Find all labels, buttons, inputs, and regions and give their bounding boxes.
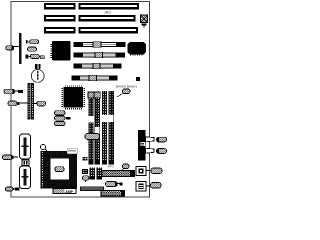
component B2 (socketed part) <box>136 182 146 192</box>
SIMM socket 3 <box>102 91 107 165</box>
pill row 2 <box>55 116 71 120</box>
pill row 1 (left of QFP) <box>55 111 66 115</box>
ISA slot row 1 right segment <box>79 3 140 10</box>
bottom checkered connector <box>101 191 125 197</box>
pin pill below fan <box>83 176 90 182</box>
CPU socket <box>41 151 78 189</box>
slot middle connector <box>22 160 29 166</box>
floppy connector (checkered bar 1) <box>102 171 135 177</box>
pill right of B2 <box>151 183 162 189</box>
wire to pill A <box>14 46 20 47</box>
keyboard connector <box>141 15 148 27</box>
small component below chipset <box>40 56 44 59</box>
serial port trapezoid 2 <box>146 148 155 153</box>
QFP flash chip <box>62 86 84 109</box>
socket corner label <box>67 149 78 154</box>
pill overlay on SIMM 1-2 <box>85 134 100 140</box>
chipset chip (top) <box>52 41 71 61</box>
wire B1 to pill <box>146 170 151 171</box>
pill E <box>6 187 20 191</box>
crystal legs <box>35 64 37 69</box>
fan icon <box>83 170 88 174</box>
ISA slot row 2 left segment <box>44 15 76 22</box>
ISA slot row 3 left segment <box>44 27 76 34</box>
VRM slot 1 <box>20 134 31 159</box>
svg-text:BANK0 BANK1: BANK0 BANK1 <box>116 85 137 89</box>
board outline <box>11 2 150 198</box>
port pill 2 <box>157 149 167 154</box>
header side pill right <box>34 101 45 106</box>
pill with pointer (under SIMMs) <box>121 164 129 171</box>
pill B <box>4 89 23 94</box>
tiny squares right of socket <box>83 157 88 161</box>
right edge tick <box>136 77 140 81</box>
wire B2 to pill <box>146 186 151 187</box>
cache bar 1 <box>90 168 96 180</box>
rear port block <box>138 130 146 161</box>
svg-text:AMP: AMP <box>65 190 73 194</box>
SIMM socket 2 <box>94 92 100 165</box>
pill D <box>3 155 19 160</box>
component B1 (socketed part) <box>136 167 146 176</box>
circle marker (pin1) <box>40 144 47 151</box>
cache bar 2 <box>97 168 103 180</box>
twin pin headers <box>28 83 35 120</box>
AMP connector bar <box>53 189 76 194</box>
bank pill with pointer <box>117 89 130 97</box>
pill right of B1 <box>151 168 162 174</box>
PCI slot row 6 <box>74 63 121 68</box>
rounded connector blob (top right) <box>128 42 147 55</box>
svg-text:J4E1: J4E1 <box>104 11 111 15</box>
pill A label <box>6 46 14 50</box>
VRM slot 2 <box>20 166 31 189</box>
PCI slot row 5 <box>74 52 125 57</box>
pin bar right of AMP <box>80 187 104 192</box>
left vertical header bar <box>19 33 22 64</box>
SIMM socket 4 <box>108 91 114 165</box>
pill F <box>106 182 123 187</box>
slot row 7 <box>72 75 117 80</box>
port pill 1 <box>157 137 167 142</box>
jumper item 3 <box>26 54 40 58</box>
header side pill left <box>8 101 27 106</box>
ISA slot row 1 left segment <box>44 3 76 10</box>
jumper item 1 <box>26 40 39 44</box>
ISA slot row 3 right segment <box>79 27 139 34</box>
PCI slot row 4 <box>74 42 125 47</box>
serial port trapezoid 1 <box>146 137 155 142</box>
SIMM socket 1 <box>88 92 94 165</box>
jumper item 2 <box>28 47 37 51</box>
pill row 3 <box>55 121 66 125</box>
ISA slot row 2 right segment <box>79 15 136 22</box>
battery circle <box>31 70 44 83</box>
CPU pill <box>55 167 64 172</box>
svg-text:J7F1: J7F1 <box>107 165 114 169</box>
